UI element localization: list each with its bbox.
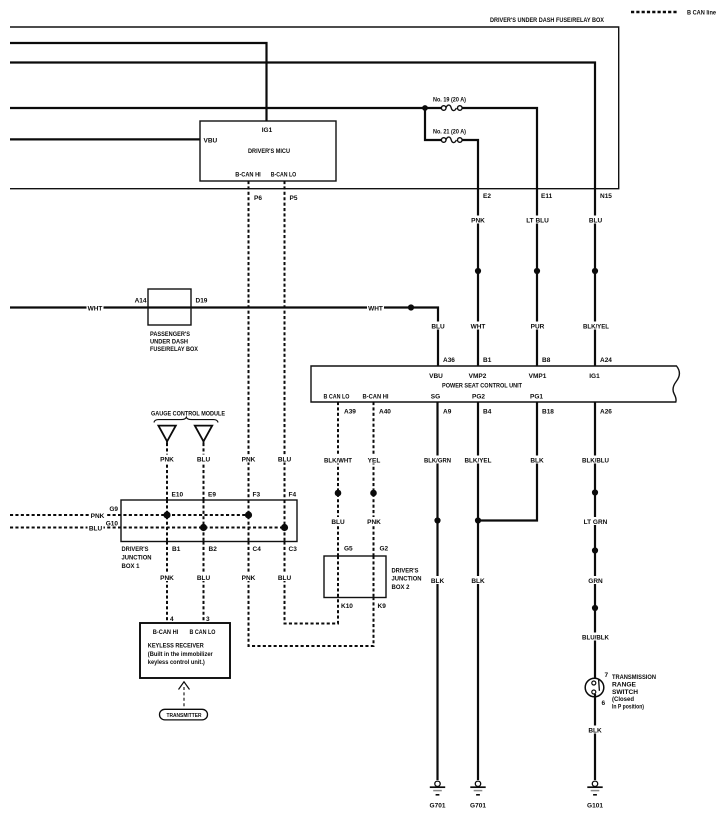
svg-text:WHT: WHT bbox=[88, 305, 103, 312]
wire to N15 (becomes BLU / A24) bbox=[10, 63, 595, 367]
svg-text:BLU: BLU bbox=[589, 217, 603, 224]
svg-text:BLK: BLK bbox=[431, 578, 445, 585]
legend B CAN line sample bbox=[631, 11, 678, 13]
svg-text:4: 4 bbox=[170, 616, 174, 623]
wire B4 to ground G701 bbox=[477, 402, 479, 780]
wire G9 PNK (dashed) into junction box 1 bbox=[10, 514, 249, 516]
wire label PNK (B1 wire) bbox=[159, 573, 175, 582]
svg-text:PASSENGER'S: PASSENGER'S bbox=[150, 331, 191, 338]
svg-text:VBU: VBU bbox=[429, 373, 443, 380]
svg-text:A39: A39 bbox=[344, 408, 356, 415]
wire label BLK/BLU (A26 wire) bbox=[581, 456, 610, 465]
svg-text:(Built in the immobilizer: (Built in the immobilizer bbox=[148, 652, 214, 658]
wire fuse No.21 to E2 (becomes PNK / B1) bbox=[462, 140, 478, 366]
wires through junction box 2 (G5-K10, G2-K9) bbox=[337, 556, 339, 598]
pin label G5 bbox=[343, 544, 354, 553]
svg-text:No. 19 (20 A): No. 19 (20 A) bbox=[433, 97, 466, 104]
svg-text:B8: B8 bbox=[542, 357, 551, 364]
wire label BLK/WHT (A39 wire) bbox=[323, 456, 353, 465]
svg-text:LT BLU: LT BLU bbox=[526, 217, 549, 224]
svg-text:G701: G701 bbox=[430, 803, 446, 810]
svg-text:GAUGE CONTROL MODULE: GAUGE CONTROL MODULE bbox=[151, 410, 226, 417]
svg-text:VBU: VBU bbox=[204, 138, 218, 145]
wire label PNK (E10 wire) bbox=[159, 455, 175, 464]
svg-text:RANGE: RANGE bbox=[612, 682, 637, 689]
svg-text:YEL: YEL bbox=[368, 457, 381, 464]
wire A9 to ground G701 bbox=[436, 402, 438, 780]
svg-text:7: 7 bbox=[605, 672, 609, 679]
svg-text:(Closed: (Closed bbox=[612, 696, 634, 703]
pin label G10 bbox=[104, 519, 119, 528]
transmitter signal arrowhead bbox=[179, 682, 190, 690]
svg-text:PG2: PG2 bbox=[472, 394, 485, 401]
svg-text:BLU: BLU bbox=[431, 323, 445, 330]
wire label BLU (B2 wire) bbox=[196, 573, 212, 582]
switch contact 7 bbox=[592, 681, 596, 685]
svg-text:B4: B4 bbox=[483, 408, 492, 415]
svg-text:B CAN line: B CAN line bbox=[687, 10, 716, 17]
wire label PNK (A40 wire lower) bbox=[366, 517, 382, 526]
svg-text:K9: K9 bbox=[378, 603, 387, 610]
svg-text:G5: G5 bbox=[344, 546, 353, 553]
wire label BLU (A36 wire) bbox=[430, 322, 446, 331]
wire label PNK (G9 wire) bbox=[89, 511, 106, 520]
wire label BLK/GRN (A9 wire) bbox=[423, 456, 452, 465]
junction dot G9/E10 bbox=[163, 511, 170, 518]
svg-text:PNK: PNK bbox=[367, 519, 381, 526]
keyless receiver box bbox=[140, 623, 230, 678]
wire label BLU (A39 wire lower) bbox=[330, 517, 346, 526]
switch blade (closed) bbox=[598, 680, 601, 691]
svg-text:TRANSMITTER: TRANSMITTER bbox=[167, 713, 202, 719]
svg-text:WHT: WHT bbox=[471, 323, 486, 330]
svg-text:keyless control unit.): keyless control unit.) bbox=[148, 660, 205, 666]
svg-text:C4: C4 bbox=[253, 546, 262, 553]
wire label BLU (G10 wire) bbox=[88, 524, 104, 533]
svg-text:B18: B18 bbox=[542, 408, 554, 415]
svg-text:BLK: BLK bbox=[530, 457, 544, 464]
wire B-CAN HI P6 (dashed, down to junction box 1 pin F3) bbox=[248, 181, 250, 500]
wire label BLK/YEL (B4 wire) bbox=[464, 456, 493, 465]
svg-text:A36: A36 bbox=[443, 357, 455, 364]
svg-text:BLU: BLU bbox=[331, 519, 345, 526]
transmitter pill bbox=[160, 709, 208, 720]
svg-text:BLU: BLU bbox=[89, 525, 103, 532]
junction dot G10/F4 bbox=[281, 524, 288, 531]
svg-text:SG: SG bbox=[431, 394, 440, 401]
power seat control unit box (torn right edge) bbox=[311, 366, 679, 402]
wire B1 PNK (dashed) to keyless receiver pin 4 bbox=[166, 542, 168, 624]
wire label LT GRN (A26 wire) bbox=[582, 517, 609, 526]
junction dot B4/B18 bbox=[475, 517, 481, 523]
svg-text:No. 21 (20 A): No. 21 (20 A) bbox=[433, 129, 466, 136]
svg-text:DRIVER'S MICU: DRIVER'S MICU bbox=[248, 148, 290, 155]
svg-text:3: 3 bbox=[206, 616, 210, 623]
ground G101 (transmission range switch) bbox=[587, 781, 603, 810]
svg-text:PG1: PG1 bbox=[530, 394, 543, 401]
svg-text:KEYLESS RECEIVER: KEYLESS RECEIVER bbox=[148, 643, 204, 650]
transmitter signal dashed shaft bbox=[183, 687, 185, 708]
ground G701 (B4) bbox=[470, 781, 486, 810]
wire label WHT (left segment) bbox=[87, 304, 104, 313]
svg-text:A24: A24 bbox=[600, 357, 612, 364]
wire label BLK (B4 wire lower) bbox=[470, 576, 486, 585]
wire C4 PNK (dashed) to junction box 2 pin K9 bbox=[249, 542, 374, 647]
svg-text:BLU: BLU bbox=[278, 456, 292, 463]
svg-text:PNK: PNK bbox=[160, 456, 174, 463]
svg-text:A40: A40 bbox=[379, 408, 391, 415]
splice dot on A26 wire (LT GRN to GRN) bbox=[592, 547, 598, 553]
splice dot on A9 wire bbox=[434, 517, 440, 523]
svg-text:P5: P5 bbox=[290, 195, 298, 202]
wire to fuse No.19 bbox=[10, 107, 441, 109]
svg-text:C3: C3 bbox=[289, 546, 298, 553]
driver's MICU box bbox=[200, 121, 336, 181]
svg-text:E9: E9 bbox=[208, 491, 216, 498]
wire A26 to transmission range switch bbox=[594, 402, 596, 681]
splice dot on A40 wire bbox=[370, 490, 377, 497]
svg-text:IG1: IG1 bbox=[589, 373, 600, 380]
wire label BLU (F4 wire) bbox=[277, 455, 293, 464]
wire B2 BLU (dashed) to keyless receiver pin 3 bbox=[203, 542, 205, 624]
svg-text:A9: A9 bbox=[443, 408, 452, 415]
wire label BLK (G101 wire) bbox=[587, 726, 603, 735]
wire label BLU (N15 wire) bbox=[588, 216, 604, 225]
splice dot on A39 wire bbox=[335, 490, 342, 497]
wire label PNK (F3 wire) bbox=[241, 455, 257, 464]
svg-text:WHT: WHT bbox=[368, 305, 383, 312]
driver's junction box 1 bbox=[121, 500, 297, 542]
svg-text:B-CAN HI: B-CAN HI bbox=[363, 394, 389, 401]
wire label PNK (C4 wire) bbox=[241, 573, 257, 582]
splice dot on N15 wire bbox=[592, 268, 598, 274]
svg-text:G9: G9 bbox=[109, 506, 118, 513]
svg-text:TRANSMISSION: TRANSMISSION bbox=[612, 674, 656, 681]
svg-text:G101: G101 bbox=[587, 803, 603, 810]
label TRANSMISSION RANGE SWITCH bbox=[612, 674, 656, 710]
svg-text:G10: G10 bbox=[106, 520, 119, 527]
svg-text:BLU/BLK: BLU/BLK bbox=[582, 634, 609, 641]
gauge connector triangle 1 bbox=[158, 426, 175, 442]
wire IG1 feed to driver's MICU bbox=[10, 43, 267, 121]
svg-text:PUR: PUR bbox=[531, 323, 545, 330]
splice dot on A26 wire (BLK/BLU to LT GRN) bbox=[592, 489, 598, 495]
svg-text:A14: A14 bbox=[135, 297, 147, 304]
wire gauge PNK (dashed) to E10 bbox=[166, 443, 168, 500]
svg-text:N15: N15 bbox=[600, 193, 612, 200]
svg-text:K10: K10 bbox=[341, 603, 353, 610]
svg-text:UNDER DASH: UNDER DASH bbox=[150, 338, 188, 345]
svg-text:B CAN LO: B CAN LO bbox=[324, 394, 350, 401]
wire switch to ground G101 bbox=[594, 694, 596, 780]
wire label YEL (A40 wire) bbox=[366, 456, 382, 465]
svg-text:BLK/YEL: BLK/YEL bbox=[465, 457, 492, 464]
svg-text:BLK: BLK bbox=[588, 727, 602, 734]
ground G701 (A9) bbox=[430, 781, 446, 810]
svg-text:SWITCH: SWITCH bbox=[612, 689, 638, 696]
wire label WHT (right segment) bbox=[367, 304, 384, 313]
transmission range switch body bbox=[585, 678, 604, 697]
wire VBU feed to driver's MICU bbox=[10, 138, 200, 140]
wire label PNK (E2 wire) bbox=[470, 216, 486, 225]
splice dot on A26 wire (GRN to BLU/BLK) bbox=[592, 605, 598, 611]
label DRIVER'S JUNCTION BOX 2 bbox=[392, 567, 422, 591]
svg-text:F4: F4 bbox=[289, 491, 297, 498]
svg-text:PNK: PNK bbox=[471, 217, 485, 224]
svg-text:B1: B1 bbox=[172, 546, 181, 553]
svg-text:B1: B1 bbox=[483, 357, 492, 364]
svg-text:JUNCTION: JUNCTION bbox=[392, 576, 422, 583]
svg-text:DRIVER'S UNDER DASH FUSE/RELAY: DRIVER'S UNDER DASH FUSE/RELAY BOX bbox=[490, 17, 605, 24]
wire C3 BLU (dashed) to junction box 2 pin K10 bbox=[285, 542, 339, 624]
splice dot on E2 wire bbox=[475, 268, 481, 274]
wire fuse No.19 to E11 (becomes LT BLU / B8) bbox=[462, 108, 537, 366]
svg-text:F3: F3 bbox=[253, 491, 261, 498]
svg-text:BLU: BLU bbox=[197, 456, 211, 463]
junction dot fuse feed bbox=[422, 105, 428, 111]
wire branch down to fuse No.21 bbox=[425, 108, 441, 140]
svg-text:PNK: PNK bbox=[91, 513, 105, 520]
svg-text:JUNCTION: JUNCTION bbox=[122, 555, 152, 562]
wire label BLK (A9 wire lower) bbox=[430, 576, 446, 585]
pin label G2 bbox=[379, 544, 390, 553]
svg-text:BLK: BLK bbox=[471, 578, 485, 585]
svg-text:PNK: PNK bbox=[242, 575, 256, 582]
pin label G9 bbox=[106, 504, 119, 513]
svg-text:D19: D19 bbox=[196, 297, 208, 304]
svg-text:FUSE/RELAY BOX: FUSE/RELAY BOX bbox=[150, 346, 199, 353]
fuse No.21 (20 A) bbox=[441, 137, 462, 142]
svg-text:BLK/WHT: BLK/WHT bbox=[324, 457, 352, 464]
splice dot on WHT wire bbox=[408, 304, 414, 310]
switch contact 6 bbox=[592, 690, 596, 694]
svg-text:BLU: BLU bbox=[197, 575, 211, 582]
wire WHT through passenger's under-dash fuse/relay box to A36 bbox=[10, 308, 438, 367]
svg-text:DRIVER'S: DRIVER'S bbox=[122, 546, 150, 553]
svg-text:PNK: PNK bbox=[242, 456, 256, 463]
wire label BLU/BLK (A26 wire) bbox=[581, 633, 610, 642]
wire label LT BLU (E11 wire) bbox=[524, 216, 551, 225]
driver's junction box 2 bbox=[324, 556, 386, 598]
passenger's under-dash fuse/relay box bbox=[148, 289, 191, 325]
driver's under-dash fuse/relay box outline bbox=[10, 27, 619, 189]
wire label BLU (E9 wire) bbox=[196, 455, 212, 464]
wire A39 B CAN LO (dashed) to junction box 2 pin G5 bbox=[337, 402, 339, 556]
svg-text:E2: E2 bbox=[483, 193, 491, 200]
wire label BLK/YEL (A24 wire) bbox=[582, 322, 610, 331]
svg-text:BOX 2: BOX 2 bbox=[392, 584, 410, 591]
wire label BLK (B18 wire) bbox=[529, 456, 545, 465]
wire B18 joining B4 bbox=[478, 402, 537, 521]
wire gauge BLU (dashed) to E9 bbox=[203, 443, 205, 500]
label PASSENGER'S UNDER DASH FUSE/RELAY BOX bbox=[150, 331, 199, 353]
svg-text:B-CAN HI: B-CAN HI bbox=[153, 629, 179, 636]
wire label BLU (C3 wire) bbox=[277, 573, 293, 582]
svg-text:BLK/GRN: BLK/GRN bbox=[424, 457, 451, 464]
label KEYLESS RECEIVER bbox=[148, 643, 214, 666]
svg-text:B2: B2 bbox=[209, 546, 218, 553]
junction dot G9/F3 bbox=[245, 511, 252, 518]
svg-text:BLK/BLU: BLK/BLU bbox=[582, 457, 609, 464]
wire label WHT (B1 wire) bbox=[470, 322, 486, 331]
wire B-CAN LO P5 (dashed, down to junction box 1 pin F4) bbox=[284, 181, 286, 500]
brace under gauge control module label bbox=[154, 417, 218, 422]
svg-text:POWER SEAT CONTROL UNIT: POWER SEAT CONTROL UNIT bbox=[442, 383, 522, 390]
fuse No.19 (20 A) bbox=[441, 105, 462, 110]
wires through junction box 1 (E10-B1, E9-B2, F3-C4, F4-C3) bbox=[166, 500, 168, 542]
junction dot G10/E9 bbox=[200, 524, 207, 531]
svg-text:A26: A26 bbox=[600, 408, 612, 415]
svg-text:B CAN LO: B CAN LO bbox=[190, 629, 216, 636]
svg-text:BOX 1: BOX 1 bbox=[122, 563, 140, 570]
svg-text:BLU: BLU bbox=[278, 575, 292, 582]
svg-text:B-CAN LO: B-CAN LO bbox=[271, 172, 297, 179]
svg-text:In P position): In P position) bbox=[612, 703, 644, 710]
svg-text:B-CAN HI: B-CAN HI bbox=[235, 172, 261, 179]
splice dot on E11 wire bbox=[534, 268, 540, 274]
svg-text:GRN: GRN bbox=[588, 578, 603, 585]
gauge connector triangle 2 bbox=[195, 426, 212, 442]
wire label PUR (B8 wire) bbox=[529, 322, 545, 331]
svg-text:P6: P6 bbox=[254, 195, 262, 202]
svg-text:BLK/YEL: BLK/YEL bbox=[583, 323, 609, 330]
wire label GRN (A26 wire) bbox=[587, 576, 604, 585]
svg-text:6: 6 bbox=[602, 700, 606, 707]
svg-text:G2: G2 bbox=[380, 546, 389, 553]
wire G10 BLU (dashed) into junction box 1 bbox=[10, 527, 285, 529]
svg-text:LT GRN: LT GRN bbox=[584, 519, 608, 526]
svg-text:E11: E11 bbox=[541, 193, 553, 200]
wire A40 B-CAN HI (dashed) to junction box 2 pin G2 bbox=[373, 402, 375, 556]
svg-text:E10: E10 bbox=[172, 491, 184, 498]
svg-text:VMP2: VMP2 bbox=[469, 373, 487, 380]
label DRIVER'S JUNCTION BOX 1 bbox=[122, 546, 152, 570]
svg-text:DRIVER'S: DRIVER'S bbox=[392, 567, 420, 574]
svg-text:PNK: PNK bbox=[160, 575, 174, 582]
svg-text:VMP1: VMP1 bbox=[529, 373, 547, 380]
svg-text:G701: G701 bbox=[470, 803, 486, 810]
svg-text:IG1: IG1 bbox=[262, 127, 273, 134]
